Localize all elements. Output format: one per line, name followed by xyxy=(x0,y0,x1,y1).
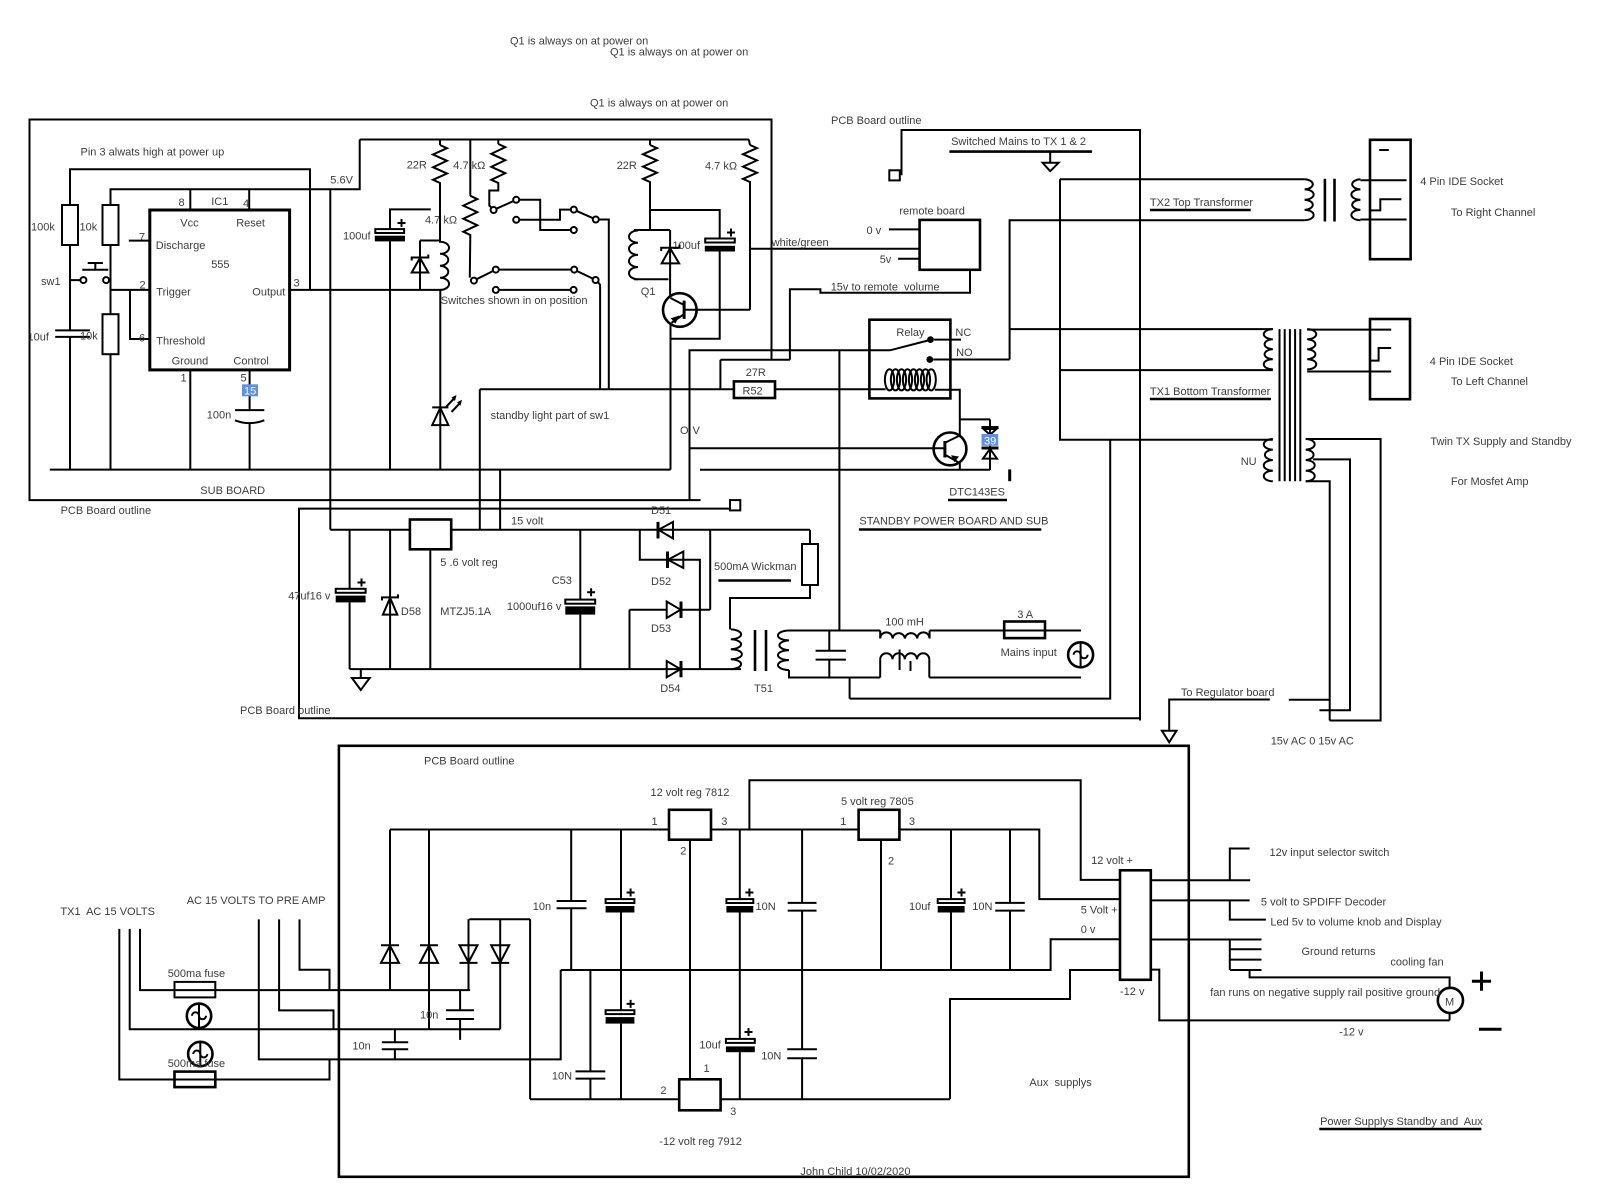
svg-text:27R: 27R xyxy=(746,367,766,379)
svg-text:To Left Channel: To Left Channel xyxy=(1451,376,1528,388)
svg-text:5 .6 volt reg: 5 .6 volt reg xyxy=(440,557,497,569)
svg-text:PCB Board outline: PCB Board outline xyxy=(831,115,922,127)
wire: Q1 emitter down to ground rail xyxy=(670,324,672,470)
svg-text:standby light part of sw1: standby light part of sw1 xyxy=(491,410,610,422)
switch sw1 pushbutton xyxy=(70,263,111,283)
wire: white/green to remote board xyxy=(750,248,920,250)
svg-text:PCB Board outline: PCB Board outline xyxy=(240,705,331,717)
wire: Led 5v stub xyxy=(1230,900,1266,919)
svg-text:NU: NU xyxy=(1241,456,1257,468)
svg-text:PCB Board outline: PCB Board outline xyxy=(424,756,515,768)
wire: To Regulator board with down arrow xyxy=(1162,700,1330,743)
capacitor 10n (on middle wire) xyxy=(352,1029,408,1059)
svg-text:5: 5 xyxy=(241,373,247,385)
regulator 7812 xyxy=(669,810,711,840)
svg-text:4.7 kΩ: 4.7 kΩ xyxy=(705,161,737,173)
relay box xyxy=(869,320,950,399)
wire: 5 volt output xyxy=(1151,899,1250,901)
svg-text:D51: D51 xyxy=(651,505,671,517)
zener diode D58 xyxy=(382,530,398,669)
fuse 3 A xyxy=(1004,622,1045,639)
svg-text:10n: 10n xyxy=(533,901,551,913)
svg-text:D58: D58 xyxy=(401,606,421,618)
transistor Q1 xyxy=(663,293,697,327)
svg-text:O: O xyxy=(680,425,689,437)
svg-text:4 Pin IDE Socket: 4 Pin IDE Socket xyxy=(1430,356,1513,368)
wire: bridge negative link xyxy=(469,919,530,1099)
diode D51 xyxy=(658,522,673,539)
svg-text:47uf16 v: 47uf16 v xyxy=(288,591,331,603)
svg-text:100k: 100k xyxy=(31,222,55,234)
resistor R52 27R xyxy=(734,381,775,398)
svg-text:0 v: 0 v xyxy=(867,225,882,237)
switch pole 1 xyxy=(513,197,519,203)
svg-text:0 v: 0 v xyxy=(1081,924,1096,936)
capacitor 100n xyxy=(235,410,264,423)
svg-text:5.6V: 5.6V xyxy=(330,175,353,187)
svg-text:39: 39 xyxy=(984,435,996,447)
svg-text:To Right Channel: To Right Channel xyxy=(1451,207,1535,219)
resistor 10k (lower) xyxy=(103,314,119,354)
relay NO contact xyxy=(926,356,933,363)
wire: 5v stub xyxy=(898,258,920,260)
svg-text:Switched Mains to TX 1 & 2: Switched Mains to TX 1 & 2 xyxy=(951,136,1086,148)
wire: drop to 15 volt rail xyxy=(479,389,481,530)
wire: pin 8 stub xyxy=(189,189,191,210)
relay blade xyxy=(890,341,928,351)
wire: mains bottom wire xyxy=(789,670,1081,678)
svg-text:500ma fuse: 500ma fuse xyxy=(168,968,225,980)
svg-text:NO: NO xyxy=(956,347,973,359)
svg-text:15: 15 xyxy=(244,386,256,398)
wire: -12v output to fan xyxy=(1151,970,1450,1021)
svg-text:Q1 is always on at power on: Q1 is always on at power on xyxy=(590,98,728,110)
svg-text:Led 5v to volume knob and Disp: Led 5v to volume knob and Display xyxy=(1270,916,1442,928)
svg-text:SUB BOARD: SUB BOARD xyxy=(200,485,265,497)
PCB board outline: sub board xyxy=(30,120,772,501)
svg-text:M: M xyxy=(1445,996,1454,1008)
diode D54 xyxy=(667,661,681,677)
wire: pin 5 control stub xyxy=(249,370,251,410)
svg-text:IC1: IC1 xyxy=(211,196,228,208)
wire: preamp AC lead 3 xyxy=(259,919,561,1059)
svg-text:8: 8 xyxy=(179,197,185,209)
svg-text:12v input selector switch: 12v input selector switch xyxy=(1270,847,1390,859)
wires: TX2 secondary leads xyxy=(1360,180,1406,219)
TX2 secondary winding xyxy=(1351,179,1360,220)
svg-text:Reset: Reset xyxy=(236,218,265,230)
svg-text:7: 7 xyxy=(139,232,145,244)
svg-text:Output: Output xyxy=(252,287,285,299)
svg-text:Vcc: Vcc xyxy=(180,218,199,230)
capacitor 100uf (right electrolytic) xyxy=(650,210,735,252)
capacitor: mains filter xyxy=(816,631,846,678)
remote board box xyxy=(920,220,980,270)
wire: +12 rail xyxy=(390,830,1120,900)
wire: 12 volt feed over to connector xyxy=(749,780,1120,880)
svg-text:Power Supplys Standby and Aux: Power Supplys Standby and Aux xyxy=(1320,1116,1483,1128)
svg-text:Q1: Q1 xyxy=(641,286,656,298)
regulator: 5.6 volt reg box xyxy=(410,520,451,550)
capacitor 10N (12V out) xyxy=(756,830,817,1100)
svg-text:3: 3 xyxy=(721,816,727,828)
svg-text:5 volt to SPDIFF Decoder: 5 volt to SPDIFF Decoder xyxy=(1261,896,1387,908)
svg-text:Q1 is always on at power on: Q1 is always on at power on xyxy=(610,47,748,59)
arrow: switched mains down arrow xyxy=(1043,152,1059,172)
resistor 4.7 kOhm (upper mid) xyxy=(489,140,505,208)
wire: trigger stub pin 2 xyxy=(111,289,150,291)
resistor 100k xyxy=(62,205,78,245)
svg-text:Mains input: Mains input xyxy=(1001,647,1057,659)
wire: TX1 input middle xyxy=(130,929,501,1029)
wire: relay common down to mains node xyxy=(838,350,840,630)
wire: TX1 input left xyxy=(119,929,174,1080)
capacitor 10n (on fuse wire) xyxy=(420,990,474,1040)
svg-text:For Mosfet Amp: For Mosfet Amp xyxy=(1451,476,1529,488)
op-amp-style IC box: 555 IC1 xyxy=(150,210,290,370)
svg-text:10uf: 10uf xyxy=(699,1040,721,1052)
svg-text:500mA Wickman: 500mA Wickman xyxy=(714,561,797,573)
wire: D53 left down to 0v rail xyxy=(629,610,631,669)
wire: TX1 input right xyxy=(140,929,175,990)
wire: stub near DTC xyxy=(1008,469,1011,481)
inductor coil 1 xyxy=(440,183,449,290)
resistor 22R (right) xyxy=(643,140,657,231)
PCB outline notch square (sub board) xyxy=(730,500,740,510)
wire: pin3-high wire (net A) xyxy=(70,169,310,290)
switch pole 3 xyxy=(471,278,477,284)
PCB board outline: top right board xyxy=(902,130,1141,721)
wire: 10k bottom to trigger column xyxy=(110,245,112,314)
svg-text:1: 1 xyxy=(840,816,846,828)
PCB board outline: regulator board xyxy=(339,746,1189,1177)
diode D2 (bridge) xyxy=(420,830,438,1030)
capacitor 10n (12V input) xyxy=(533,830,587,971)
wire: to regulator board riser xyxy=(849,678,851,699)
svg-text:15 volt: 15 volt xyxy=(511,516,543,528)
svg-text:10N: 10N xyxy=(552,1070,572,1082)
svg-text:10N: 10N xyxy=(756,901,776,913)
fuse 500ma (lower) xyxy=(119,1058,329,1087)
svg-text:NC: NC xyxy=(955,327,971,339)
svg-text:Threshold: Threshold xyxy=(156,336,205,348)
svg-text:2: 2 xyxy=(680,846,686,858)
TX2 primary winding xyxy=(1305,179,1314,220)
svg-text:500ma fuse: 500ma fuse xyxy=(168,1058,225,1070)
regulator 7912 xyxy=(530,970,950,1148)
svg-text:4.7 kΩ: 4.7 kΩ xyxy=(425,215,457,227)
wire: D51/D52 left link xyxy=(640,530,684,560)
diode D52 xyxy=(668,552,684,569)
AC source symbol: mains input xyxy=(1068,642,1093,667)
svg-text:100 mH: 100 mH xyxy=(885,616,924,628)
wire: 5 volt feed to connector xyxy=(898,829,900,831)
wire: 12v output with selector stub xyxy=(1151,849,1250,881)
wire: Vcc/reset top wire to 5.6V node xyxy=(111,140,360,206)
svg-text:TX1 Bottom Transformer: TX1 Bottom Transformer xyxy=(1150,386,1271,398)
capacitor electrolytic (12V out) xyxy=(726,830,753,971)
wire: pin 7 stub xyxy=(129,240,150,242)
wire: Q1 base to 4.7k xyxy=(685,309,750,311)
svg-text:10k: 10k xyxy=(80,222,98,234)
svg-text:T51: T51 xyxy=(754,683,773,695)
svg-text:Relay: Relay xyxy=(896,327,925,339)
capacitor electrolytic (neg rail, lower) xyxy=(606,1000,635,1099)
PCB outline notch square (top right) xyxy=(889,170,900,180)
svg-text:10n: 10n xyxy=(352,1041,370,1053)
resistor 4.7 kOhm (lower mid) xyxy=(463,140,477,278)
TX2 core xyxy=(1325,179,1335,222)
capacitor 10uf xyxy=(55,330,90,337)
svg-text:Ground returns: Ground returns xyxy=(1302,946,1376,958)
highlight: 15 (search highlight) xyxy=(242,384,258,396)
wire: pin 1 ground stub xyxy=(189,370,191,470)
svg-text:Control: Control xyxy=(233,356,268,368)
svg-text:15v to remote volume: 15v to remote volume xyxy=(831,282,940,294)
svg-text:remote board: remote board xyxy=(899,206,964,218)
wire: D52 right link up to rail xyxy=(683,560,700,669)
svg-text:R52: R52 xyxy=(743,386,763,398)
wire: 0 v stub xyxy=(889,228,920,230)
svg-text:DTC143ES: DTC143ES xyxy=(949,487,1005,499)
svg-text:2: 2 xyxy=(660,1085,666,1097)
wire: sub board ground rail xyxy=(50,469,671,471)
connector: 4 pin IDE socket (right channel) xyxy=(1370,140,1411,259)
svg-text:Trigger: Trigger xyxy=(156,287,191,299)
svg-text:10uf: 10uf xyxy=(28,332,50,344)
wire: mains distribution vertical xyxy=(850,179,1111,698)
svg-text:10N: 10N xyxy=(972,901,992,913)
regulator 7805 xyxy=(859,810,900,840)
TX1 secondary winding xyxy=(1307,329,1316,369)
capacitor 100uf (left electrolytic) xyxy=(343,209,431,242)
relay coil 2 box (coil + zener) xyxy=(629,230,670,279)
wire: threshold link pin 6 xyxy=(130,290,150,339)
inductor choke (bottom) xyxy=(880,650,929,678)
motor M (cooling fan) xyxy=(1438,988,1463,1013)
svg-text:To Regulator board: To Regulator board xyxy=(1181,687,1275,699)
connector: output header xyxy=(1120,870,1151,980)
svg-text:1: 1 xyxy=(181,373,187,385)
wire: standby 0v rail xyxy=(350,668,741,670)
svg-text:MTZJ5.1A: MTZJ5.1A xyxy=(440,606,491,618)
wire: pin 4 stub xyxy=(248,189,250,210)
transformer T51 primary xyxy=(731,629,742,669)
wire: mains top wire to fuse xyxy=(930,630,1081,632)
wire: 100k bottom to sw1/cap column xyxy=(69,245,71,470)
wire: 15 volt rail xyxy=(330,529,810,531)
wire: DTC base wire xyxy=(690,447,945,449)
svg-text:STANDBY POWER BOARD AND SUB: STANDBY POWER BOARD AND SUB xyxy=(859,516,1048,528)
symbol: plus xyxy=(1472,972,1491,991)
capacitor 10uf (5V out) xyxy=(909,830,966,971)
wire: rail tee down to D53 xyxy=(709,530,711,610)
svg-text:3: 3 xyxy=(294,278,300,290)
wire: NU secondary outer lead xyxy=(1306,439,1381,721)
LED standby light xyxy=(432,290,462,470)
svg-text:TX1 AC 15 VOLTS: TX1 AC 15 VOLTS xyxy=(60,906,155,918)
diode D3 (bridge, down) xyxy=(460,919,478,990)
wire: pin 3 output wire xyxy=(290,289,441,291)
wire: ground returns comb xyxy=(1151,940,1450,988)
svg-text:-12 volt reg 7912: -12 volt reg 7912 xyxy=(659,1136,742,1148)
svg-text:10uf: 10uf xyxy=(909,901,931,913)
wire: 100uf right bottom lead xyxy=(671,252,720,339)
svg-text:12 volt +: 12 volt + xyxy=(1091,855,1133,867)
wire: ground rail drop xyxy=(499,470,501,530)
wire: 7812 pin 2 to 0v rail xyxy=(689,840,691,970)
svg-text:15v AC 0 15v AC: 15v AC 0 15v AC xyxy=(1271,736,1354,748)
svg-text:3: 3 xyxy=(909,816,915,828)
svg-text:22R: 22R xyxy=(407,160,427,172)
svg-text:C53: C53 xyxy=(552,575,572,587)
svg-text:D54: D54 xyxy=(660,683,680,695)
capacitor electrolytic (12V input, upper) xyxy=(606,830,635,1011)
svg-text:5 Volt +: 5 Volt + xyxy=(1081,905,1118,917)
wire: NU secondary inner lead xyxy=(1306,481,1330,720)
svg-text:D53: D53 xyxy=(651,623,671,635)
svg-text:Twin TX Supply and Standby: Twin TX Supply and Standby xyxy=(1430,436,1572,448)
capacitor 47uf16v xyxy=(288,530,365,669)
diode D4 (bridge, down) xyxy=(491,919,509,1029)
capacitor 10N (neg, lower) xyxy=(552,970,605,1099)
svg-text:10N: 10N xyxy=(761,1051,781,1063)
connector: 4 pin IDE socket (left channel) xyxy=(1370,319,1410,399)
diode D1 (bridge) xyxy=(381,830,399,991)
svg-text:John Child 10/02/2020: John Child 10/02/2020 xyxy=(800,1166,910,1178)
TX1 core (multi-bar) xyxy=(1280,329,1301,481)
svg-text:cooling fan: cooling fan xyxy=(1390,956,1443,968)
symbol: minus xyxy=(1479,1028,1502,1031)
svg-text:10k: 10k xyxy=(80,331,98,343)
svg-text:D52: D52 xyxy=(651,576,671,588)
resistor 4.7 kOhm (right) xyxy=(743,140,757,310)
capacitor 10N (5V out) xyxy=(972,830,1025,971)
relay coil xyxy=(885,369,936,390)
capacitor 10uf (neg rail) xyxy=(699,970,754,1099)
wire: 100uf bottom lead to ground rail xyxy=(389,241,391,469)
svg-text:100uf: 100uf xyxy=(673,240,701,252)
svg-text:555: 555 xyxy=(211,259,229,271)
wire: preamp AC lead 2 xyxy=(279,919,333,1029)
wire: NU secondary centre tap xyxy=(1313,459,1350,710)
AC source symbol (upper) xyxy=(187,1004,211,1028)
resistor 22R (left) xyxy=(433,140,447,242)
svg-text:sw1: sw1 xyxy=(41,276,61,288)
svg-text:Discharge: Discharge xyxy=(156,240,206,252)
resistor 10k (upper) xyxy=(103,205,119,245)
svg-text:100n: 100n xyxy=(207,410,231,422)
svg-text:-12 v: -12 v xyxy=(1339,1026,1364,1038)
svg-text:100uf: 100uf xyxy=(343,231,371,243)
transistor DTC143ES xyxy=(934,419,967,469)
wire: switch common to relay coil (with R52) xyxy=(480,388,886,390)
capacitor C53 1000uf16v xyxy=(507,530,595,669)
wire: 7805 pin 2 to 0v rail xyxy=(880,840,882,970)
AC source symbol (lower) xyxy=(188,1042,212,1066)
wire: 5.6V rail drop to 15 volt rail xyxy=(329,189,331,530)
wire: preamp AC lead 1 xyxy=(300,919,330,990)
svg-text:fan runs on negative supply ra: fan runs on negative supply rail positiv… xyxy=(1210,987,1440,999)
svg-text:Ground: Ground xyxy=(172,356,209,368)
svg-text:10n: 10n xyxy=(420,1010,438,1022)
svg-text:Aux supplys: Aux supplys xyxy=(1029,1077,1092,1089)
zener diode (in coil 2 box) xyxy=(661,230,679,297)
svg-text:2: 2 xyxy=(140,280,146,292)
svg-text:AC 15 VOLTS TO PRE AMP: AC 15 VOLTS TO PRE AMP xyxy=(187,895,326,907)
switch pole 2 xyxy=(513,217,519,223)
transformer NU winding (left) xyxy=(1264,439,1273,481)
svg-text:2: 2 xyxy=(888,856,894,868)
ground symbol xyxy=(352,669,370,690)
transformer TX2 primary loop xyxy=(1060,178,1305,180)
wire: 10k lower bottom to ground rail xyxy=(110,354,112,469)
svg-text:-12 v: -12 v xyxy=(1120,986,1145,998)
svg-text:22R: 22R xyxy=(617,160,637,172)
wire: 15v to remote volume xyxy=(720,270,970,360)
inductor 100 mH choke (top) xyxy=(880,631,929,639)
fuse 500ma (upper) xyxy=(168,968,470,998)
svg-text:3 A: 3 A xyxy=(1017,609,1034,621)
switch pole 4 (open) xyxy=(493,287,499,293)
diode D53 xyxy=(630,602,711,619)
wire: 0v mid rail xyxy=(561,939,1120,970)
resistor 500mA Wickman xyxy=(714,530,818,630)
relay NC contact xyxy=(927,336,934,343)
svg-text:12 volt reg 7812: 12 volt reg 7812 xyxy=(651,787,730,799)
transformer NU winding (right) xyxy=(1306,439,1315,481)
wire: -12v feed to connector xyxy=(950,970,1120,1099)
zener diode (across coil 1) xyxy=(412,241,440,290)
wire: NU left top lead xyxy=(1110,439,1273,441)
svg-text:1000uf16 v: 1000uf16 v xyxy=(507,601,562,613)
wires: TX1 secondary leads xyxy=(1307,330,1391,372)
wire: 100n to ground rail xyxy=(249,423,251,470)
wire: DTC emitter rail xyxy=(700,469,990,471)
switch bank: shown in on position xyxy=(471,197,609,389)
svg-text:Pin 3 alwats high at power up: Pin 3 alwats high at power up xyxy=(81,147,225,159)
svg-text:5 volt reg 7805: 5 volt reg 7805 xyxy=(841,796,914,808)
svg-text:1: 1 xyxy=(704,1063,710,1075)
svg-text:1: 1 xyxy=(652,816,658,828)
svg-text:V: V xyxy=(693,425,701,437)
wire: relay coil right lead to DTC collector xyxy=(935,390,960,420)
transformer T51 secondary xyxy=(778,631,789,671)
wire: 5.6V top rail xyxy=(360,139,749,141)
wire: R52 top link xyxy=(719,360,721,390)
svg-text:6: 6 xyxy=(139,333,145,345)
svg-text:Switches shown in on position: Switches shown in on position xyxy=(441,295,588,307)
svg-text:TX2 Top Transformer: TX2 Top Transformer xyxy=(1150,197,1253,209)
svg-text:PCB Board outline: PCB Board outline xyxy=(61,505,152,517)
transformer TX1 primary xyxy=(1010,328,1273,330)
PCB board outline: standby power board xyxy=(299,509,1140,719)
svg-text:5v: 5v xyxy=(880,254,892,266)
svg-text:4 Pin IDE Socket: 4 Pin IDE Socket xyxy=(1420,176,1503,188)
wire: mains top wire xyxy=(789,630,880,632)
svg-text:white/green: white/green xyxy=(771,237,829,249)
zener pair 39 xyxy=(960,419,999,470)
wire: 0V node wire (O V) xyxy=(690,350,891,500)
T51 core xyxy=(755,630,766,671)
svg-text:3: 3 xyxy=(730,1106,736,1118)
